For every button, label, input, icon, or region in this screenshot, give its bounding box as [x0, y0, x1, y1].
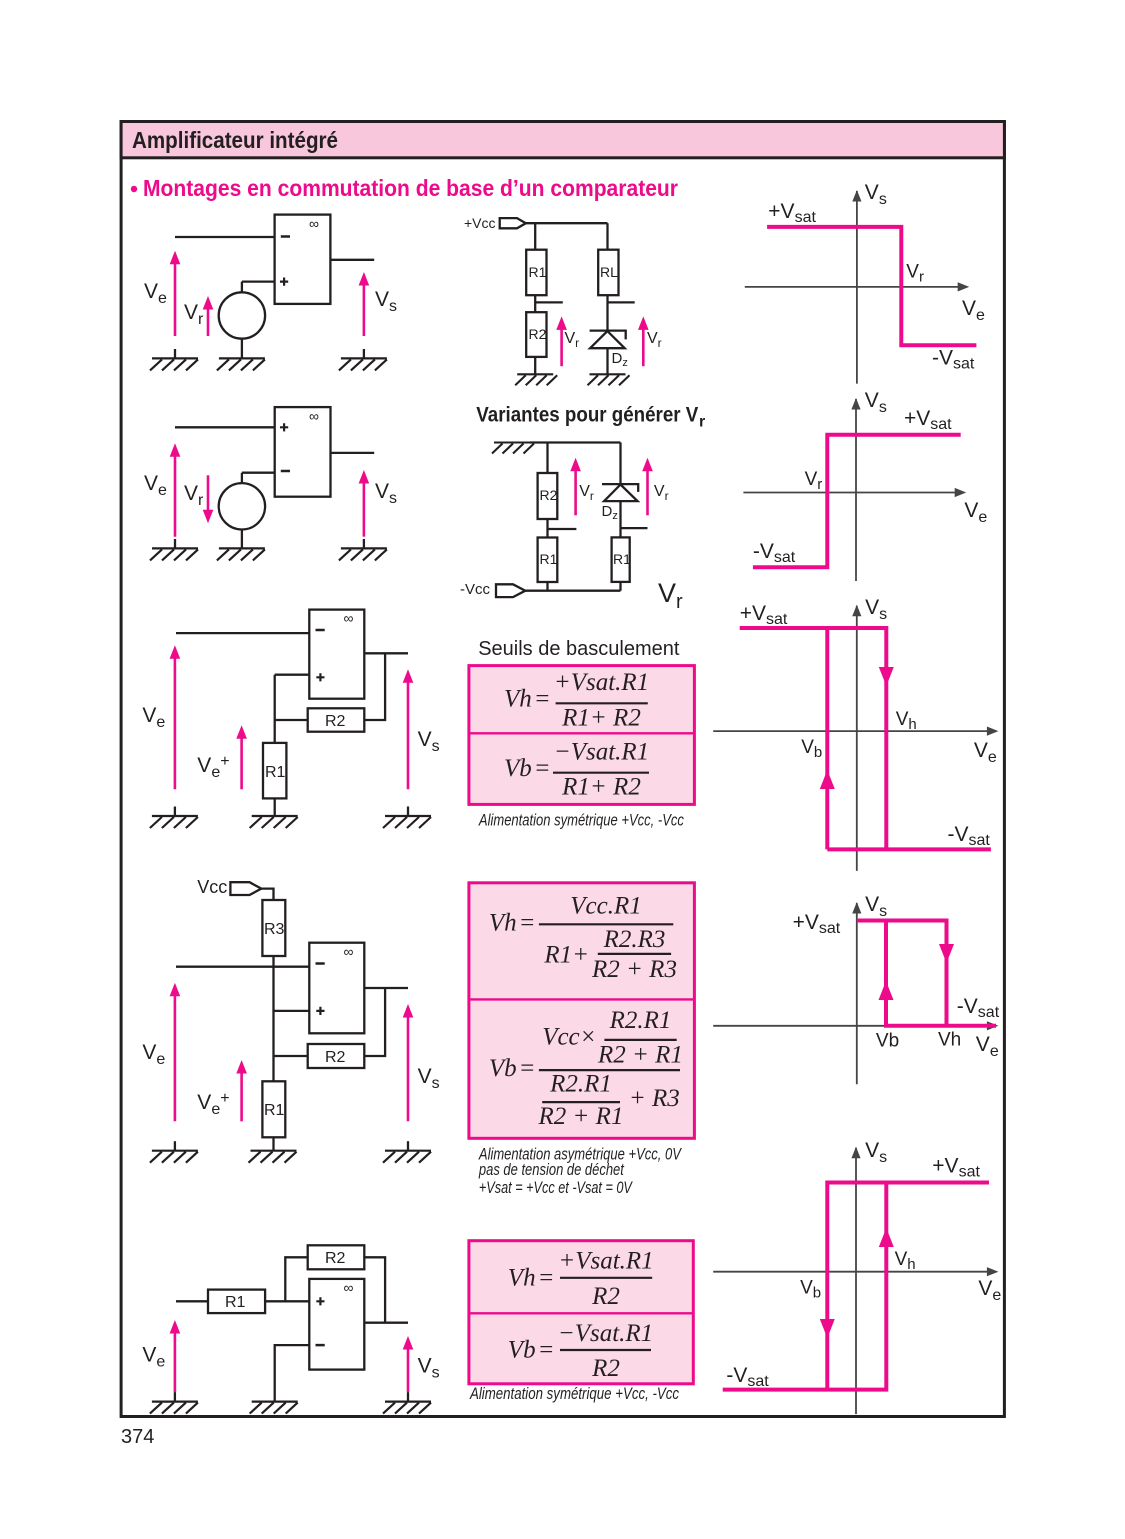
- resistor R1: [526, 250, 546, 296]
- wire left branch down: [546, 443, 548, 474]
- circuit 1: inverting comparator: [144, 215, 397, 371]
- wire inverting input to ground: [275, 1345, 310, 1402]
- ground top left: [492, 443, 534, 454]
- ground under Vs: [383, 1141, 431, 1163]
- wire zener to ground: [606, 348, 608, 374]
- wire right branch down: [606, 223, 608, 250]
- svg-text:374: 374: [121, 1426, 154, 1448]
- wire R1 to ground: [274, 798, 276, 816]
- svg-text:Vh=: Vh=: [504, 686, 551, 713]
- formula Vh = +Vsat.R1 / R2: [508, 1248, 654, 1311]
- svg-text:R1+: R1+: [543, 941, 589, 968]
- formula Vh = Vcc.R1 / (R1 + R2.R3/(R2+R3)): [489, 893, 677, 984]
- formula box 2: [469, 883, 695, 1139]
- ground left branch: [515, 374, 557, 385]
- circuit 4: hysteresis comparator with R3 to Vcc: [142, 877, 439, 1163]
- resistor R1 right: [612, 537, 632, 582]
- supply connector +Vcc: [500, 218, 526, 228]
- svg-text:∞: ∞: [344, 610, 354, 626]
- wire R1 to ground: [272, 1137, 274, 1150]
- supply connector Vcc: [230, 882, 261, 895]
- ground under Vs: [383, 807, 431, 829]
- svg-text:∞: ∞: [309, 216, 319, 232]
- ground under Ve: [150, 807, 198, 829]
- svg-text:R2 + R1: R2 + R1: [538, 1103, 624, 1130]
- graph 1: comparator transfer curve (inverting): [745, 181, 985, 384]
- svg-text:R2.R1: R2.R1: [549, 1070, 612, 1097]
- svg-text:Vcc.R1: Vcc.R1: [570, 893, 641, 920]
- formula box 1: [469, 666, 695, 805]
- wire RL to zener: [606, 295, 608, 331]
- ground under Ve: [150, 539, 198, 560]
- wire R2 to node: [275, 719, 308, 721]
- resistor R1: [262, 1081, 285, 1137]
- svg-text:∞: ∞: [309, 408, 319, 424]
- x axis Ve: [713, 727, 998, 736]
- resistor R3: [262, 900, 285, 956]
- resistor R1 left: [538, 538, 558, 583]
- svg-text:−Vsat.R1: −Vsat.R1: [554, 738, 649, 765]
- y axis Vs: [851, 398, 860, 581]
- arrow Ve: [170, 1320, 181, 1392]
- node tap wire left: [535, 301, 563, 303]
- svg-text:R2: R2: [529, 326, 547, 342]
- curve arrow up (Vb branch): [820, 770, 835, 789]
- wire R2 to node: [274, 1055, 308, 1057]
- formula Vh = +Vsat.R1 / (R1+R2): [504, 669, 649, 731]
- resistor R1: [263, 743, 286, 799]
- wire inverting input: [242, 472, 275, 474]
- hysteresis curve: [723, 1183, 989, 1390]
- svg-text:R2 + R1: R2 + R1: [597, 1042, 683, 1069]
- graph 3: hysteresis transfer curve (symmetric): [713, 596, 998, 871]
- circuit B: Vr generator from -Vcc: [460, 443, 683, 614]
- curve arrow down (Vh branch): [879, 667, 894, 686]
- svg-text:R2.R1: R2.R1: [609, 1007, 672, 1034]
- arrow Ve: [170, 983, 181, 1122]
- ground under source: [217, 358, 265, 370]
- resistor R2: [538, 473, 558, 519]
- node tap wire right: [608, 301, 635, 303]
- svg-text:R3: R3: [264, 921, 285, 938]
- wire R1 to bottom rail: [546, 582, 548, 591]
- arrow Ve: [170, 645, 181, 789]
- formula Vb = -Vsat.R1 / (R1+R2): [504, 738, 649, 800]
- op-amp U1: [275, 215, 331, 304]
- node tap wire right: [621, 527, 648, 529]
- x axis Ve: [745, 282, 969, 291]
- y axis Vs: [852, 902, 861, 1084]
- graph 5: hysteresis transfer curve (non-inverting): [713, 1139, 1001, 1414]
- wire bottom rail: [525, 590, 620, 592]
- ground under inverting input: [250, 1402, 298, 1414]
- wire R2 to output: [364, 1257, 385, 1322]
- transfer curve: [753, 435, 961, 568]
- arrow Ve: [170, 251, 181, 336]
- arrow Vs: [359, 470, 370, 537]
- svg-text:Vh: Vh: [938, 1030, 961, 1051]
- arrow Ve+: [236, 725, 247, 789]
- circuit 3: hysteresis comparator (symmetric): [142, 610, 439, 828]
- svg-text:+Vsat.R1: +Vsat.R1: [558, 1248, 653, 1275]
- supply connector -Vcc: [496, 584, 525, 597]
- ground under Vs: [339, 349, 387, 370]
- svg-text:∞: ∞: [344, 1280, 354, 1296]
- resistor R2: [308, 708, 365, 731]
- circuit A: Vr generator from +Vcc divider: [464, 215, 662, 385]
- svg-text:+Vsat = +Vcc et -Vsat = 0V: +Vsat = +Vcc et -Vsat = 0V: [479, 1179, 634, 1197]
- wire op-amp output: [364, 987, 408, 989]
- svg-text:Vb=: Vb=: [489, 1055, 536, 1082]
- svg-text:∞: ∞: [344, 944, 354, 960]
- svg-text:R1: R1: [613, 551, 631, 567]
- arrow Vs: [359, 272, 370, 336]
- resistor R2: [526, 312, 546, 357]
- svg-text:R2: R2: [325, 1049, 346, 1066]
- curve arrow up (Vh branch): [879, 1228, 894, 1247]
- svg-text:R2: R2: [325, 1250, 346, 1267]
- wire non-inverting input: [275, 674, 310, 676]
- svg-text:r: r: [699, 414, 705, 431]
- transfer curve: [767, 227, 976, 345]
- hysteresis curve: [857, 921, 996, 1026]
- wire R3 down to R1: [272, 956, 274, 1081]
- graph 2: comparator transfer curve (non-inverting): [743, 389, 987, 581]
- ground under R1: [250, 816, 298, 828]
- wire top rail: [526, 222, 608, 224]
- arrow Vr left: [570, 458, 581, 516]
- wire Ve node to non-inverting input: [175, 426, 275, 428]
- wire non-inverting input: [242, 280, 275, 282]
- svg-text:R2: R2: [591, 1355, 620, 1382]
- source Vr circle: [219, 292, 265, 338]
- y axis Vs: [852, 605, 861, 871]
- svg-text:R1: R1: [540, 551, 558, 567]
- arrow Vs: [403, 1336, 414, 1392]
- svg-text:Amplificateur intégré: Amplificateur intégré: [132, 127, 338, 153]
- svg-text:−Vsat.R1: −Vsat.R1: [558, 1320, 653, 1347]
- wire Ve node to R1: [176, 1300, 208, 1302]
- wire Ve node to inverting input: [175, 236, 275, 238]
- arrow Vs: [403, 1004, 414, 1121]
- svg-text:Vh=: Vh=: [508, 1264, 555, 1291]
- svg-text:Vcc×: Vcc×: [542, 1024, 596, 1051]
- svg-text:R1: R1: [529, 264, 547, 280]
- zener diode Dz: [602, 484, 639, 522]
- svg-text:RL: RL: [600, 264, 618, 280]
- node tap wire left: [548, 528, 577, 530]
- svg-text:Vcc: Vcc: [197, 877, 227, 897]
- y axis Vs: [852, 190, 861, 384]
- svg-text:R2.R3: R2.R3: [603, 926, 666, 953]
- svg-text:Variantes pour générer V: Variantes pour générer V: [476, 404, 698, 427]
- svg-text:Vb: Vb: [876, 1031, 899, 1052]
- svg-text:+ R3: + R3: [629, 1085, 680, 1112]
- curve arrow up (Vb branch): [879, 981, 894, 1000]
- svg-text:R1: R1: [264, 1102, 285, 1119]
- wire through source V1 to ground: [241, 473, 243, 549]
- svg-text:+Vsat.R1: +Vsat.R1: [554, 669, 649, 696]
- arrow Ve+: [236, 1060, 247, 1121]
- wire non-inverting input: [274, 1010, 310, 1012]
- arrow Vr right: [638, 316, 649, 366]
- curve arrow down (Vb branch): [820, 1319, 835, 1338]
- wire op-amp output: [364, 1322, 408, 1324]
- wire left branch down: [534, 223, 536, 250]
- svg-text:R2: R2: [325, 713, 346, 730]
- arrow Ve: [170, 443, 181, 536]
- op-amp U4: [309, 943, 364, 1034]
- zener diode Dz: [590, 331, 628, 369]
- source Vr circle: [219, 483, 265, 529]
- formula Vb = -Vsat.R1 / R2: [508, 1320, 653, 1382]
- svg-text:R1: R1: [225, 1294, 246, 1311]
- arrow Vr: [203, 296, 214, 336]
- wire connector to R3: [261, 889, 273, 900]
- svg-text:+Vcc: +Vcc: [464, 215, 496, 231]
- arrow Vs: [403, 669, 414, 789]
- svg-text:-Vcc: -Vcc: [460, 581, 491, 598]
- wire op-amp output: [330, 259, 374, 261]
- y axis Vs: [851, 1147, 860, 1414]
- ground right branch: [588, 374, 630, 385]
- ground under R1: [249, 1151, 297, 1163]
- svg-text:Alimentation symétrique +Vcc,: Alimentation symétrique +Vcc, -Vcc: [478, 812, 684, 830]
- x axis Ve: [713, 1267, 998, 1276]
- wire top rail from ground: [530, 441, 621, 443]
- curve arrow down (Vh branch): [939, 944, 954, 963]
- formula Vb = Vcc×(R2.R1/(R2+R1)) / (R2.R1/(R2+R1) + R3): [489, 1007, 683, 1130]
- wire output to R2: [364, 988, 385, 1056]
- wire node to R1: [274, 675, 276, 743]
- svg-text:R2: R2: [540, 487, 558, 503]
- ground under Vs: [383, 1392, 431, 1414]
- svg-text:Montages en commutation de bas: Montages en commutation de base d’un com…: [143, 175, 678, 201]
- header bar: [121, 122, 1004, 158]
- x axis Ve: [713, 1021, 998, 1030]
- formula box 3: [469, 1241, 693, 1384]
- svg-text:Vb=: Vb=: [504, 755, 551, 782]
- op-amp U5: [309, 1279, 364, 1370]
- svg-text:R1: R1: [265, 764, 286, 781]
- svg-text:Alimentation symétrique +Vcc,: Alimentation symétrique +Vcc, -Vcc: [469, 1385, 679, 1403]
- ground under Ve: [150, 349, 198, 370]
- op-amp U3: [309, 610, 364, 699]
- svg-text:R1+ R2: R1+ R2: [561, 704, 641, 731]
- circuit 2: non-inverting comparator: [144, 407, 397, 560]
- svg-text:R1+ R2: R1+ R2: [561, 774, 641, 801]
- x axis Ve: [743, 488, 966, 497]
- resistor R2: [308, 1044, 365, 1068]
- wire R2 to R1: [546, 519, 548, 538]
- wire right branch top: [619, 443, 621, 485]
- wire R1 to bottom rail: [619, 582, 621, 591]
- wire Ve node to inverting input: [176, 966, 309, 968]
- wire through source V1 to ground: [241, 282, 243, 359]
- wire R1 to R2: [534, 295, 536, 312]
- op-amp U2: [275, 407, 331, 497]
- wire zener to R1: [619, 501, 621, 537]
- svg-text:Seuils de basculement: Seuils de basculement: [478, 638, 680, 660]
- ground under Ve: [150, 1141, 198, 1163]
- section title bullet: [131, 186, 137, 192]
- hysteresis curve: [740, 628, 991, 849]
- arrow Vr left: [556, 316, 567, 366]
- arrow Vr (down): [203, 475, 214, 523]
- ground under Vs: [339, 539, 387, 560]
- wire node to R2: [285, 1257, 307, 1301]
- wire op-amp output: [364, 652, 408, 654]
- resistor R2: [308, 1245, 365, 1269]
- wire op-amp output: [331, 452, 375, 454]
- svg-text:R2: R2: [591, 1283, 620, 1310]
- resistor R1: [208, 1290, 265, 1314]
- circuit 5: non-inverting hysteresis comparator: [142, 1245, 439, 1413]
- ground under Ve: [150, 1392, 198, 1414]
- wire R2 to ground: [534, 357, 536, 374]
- wire Ve node to inverting input: [176, 632, 309, 634]
- svg-text:pas de tension de déchet: pas de tension de déchet: [478, 1161, 625, 1179]
- wire R1 to non-inverting input: [265, 1300, 309, 1302]
- resistor RL: [598, 250, 618, 296]
- arrow Vr right: [642, 458, 653, 516]
- wire output to R2: [364, 653, 385, 720]
- graph 4: hysteresis transfer curve (asymmetric supply): [713, 893, 999, 1084]
- ground under source: [217, 548, 265, 560]
- svg-text:Vh=: Vh=: [489, 909, 536, 936]
- svg-text:R2 + R3: R2 + R3: [591, 956, 677, 983]
- svg-text:Vb=: Vb=: [508, 1337, 555, 1364]
